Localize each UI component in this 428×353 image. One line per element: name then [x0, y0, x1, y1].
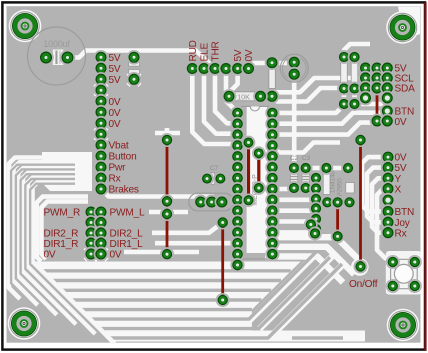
- wire SW corner diagonals: [13, 261, 115, 344]
- resistor R1 10K outline: [233, 92, 255, 101]
- resistor R4 4K7 outline: [351, 62, 358, 85]
- svg-text:C3: C3: [302, 155, 311, 162]
- svg-text:1N4148: 1N4148: [330, 170, 337, 193]
- capacitor C5 outline: [302, 166, 309, 190]
- capacitor C4 outline: [290, 166, 297, 190]
- svg-text:Rx: Rx: [109, 174, 121, 185]
- svg-text:SDA: SDA: [395, 84, 416, 95]
- svg-text:RUD: RUD: [188, 40, 199, 61]
- connector JP3 motor header pads: [85, 206, 108, 261]
- mounting hole H3: [8, 307, 41, 340]
- svg-text:0V: 0V: [110, 250, 122, 261]
- net labels motor header right: [110, 208, 145, 261]
- svg-text:BTN: BTN: [395, 107, 415, 118]
- wire IC U1 center pour: [247, 107, 268, 254]
- svg-text:Brakes: Brakes: [109, 185, 139, 196]
- mounting hole H2: [386, 11, 419, 44]
- capacitor C3 pads: [201, 173, 226, 185]
- net labels left header: [109, 53, 139, 196]
- wire red net4: [221, 223, 224, 301]
- svg-text:C2: C2: [290, 155, 299, 162]
- wire left header pour: [42, 152, 92, 191]
- svg-text:Y: Y: [395, 174, 402, 185]
- svg-text:ELE: ELE: [200, 43, 211, 62]
- svg-text:5V: 5V: [395, 163, 407, 174]
- svg-text:THR: THR: [211, 41, 222, 61]
- svg-text:Vbat: Vbat: [109, 141, 129, 152]
- connector JP5 joystick pads: [382, 151, 395, 240]
- capacitor C1 1000uf outline: [28, 27, 86, 85]
- wire red net3: [257, 153, 260, 188]
- corner pour H2: [398, 7, 420, 41]
- wire red net1: [166, 140, 169, 254]
- svg-text:Joy: Joy: [395, 218, 411, 229]
- thermal relief pad JP3b: [95, 248, 107, 260]
- svg-text:DIR1_L: DIR1_L: [110, 239, 144, 250]
- net labels RC inputs vertical: [188, 40, 255, 61]
- resistor R2 outline: [269, 68, 276, 89]
- svg-text:X: X: [395, 184, 402, 195]
- resistor R3 R4 pads: [338, 51, 361, 110]
- connector JP1 power header pads: [95, 51, 108, 196]
- wire NE corner bands: [250, 237, 365, 338]
- wire bottom trace bundle area: [30, 258, 365, 342]
- IC U1 ATmega outline: [242, 106, 269, 259]
- svg-text:PWM_R: PWM_R: [44, 208, 81, 219]
- svg-text:DIR1_R: DIR1_R: [44, 239, 79, 250]
- regulator IC2 outline: [346, 183, 355, 194]
- via pads red net3: [253, 147, 265, 194]
- svg-text:C7: C7: [210, 165, 219, 172]
- thermal relief pad JP3a: [85, 248, 97, 260]
- capacitor C2 pads: [128, 51, 141, 86]
- svg-text:0V: 0V: [109, 97, 121, 108]
- svg-text:5V: 5V: [109, 64, 121, 75]
- svg-text:0V: 0V: [395, 117, 407, 128]
- thermal relief pad JP1a: [95, 84, 107, 96]
- wire red net5: [336, 202, 339, 236]
- wire red net6 On/Off: [359, 140, 362, 267]
- wire red net2: [247, 143, 250, 201]
- net labels right bottom: [395, 207, 415, 239]
- svg-text:1000uf: 1000uf: [43, 39, 70, 49]
- connector SV1 outline: [189, 193, 234, 211]
- thermal relief pad C2: [128, 73, 140, 85]
- IC U1 pads: [231, 107, 279, 272]
- svg-text:5V: 5V: [109, 53, 121, 64]
- capacitor C2 symbol: [129, 62, 140, 74]
- svg-text:0V: 0V: [395, 153, 407, 164]
- middle right component pads: [288, 162, 356, 243]
- svg-text:On/Off: On/Off: [349, 279, 378, 290]
- crystal Q1 pads: [288, 56, 301, 81]
- net labels right middle: [395, 153, 407, 196]
- svg-text:0V: 0V: [44, 250, 56, 261]
- resistor R3 4K7 outline: [341, 62, 348, 85]
- connector SV1 pads: [194, 196, 228, 209]
- svg-text:0V: 0V: [244, 49, 255, 61]
- net labels right top: [395, 64, 416, 128]
- via pads red net4: [217, 216, 229, 306]
- resistor R1 pads: [223, 90, 268, 103]
- via clearance On/Off: [351, 258, 369, 276]
- svg-text:PWM_L: PWM_L: [110, 208, 145, 219]
- svg-text:5V: 5V: [109, 75, 121, 86]
- svg-text:Rx: Rx: [395, 228, 407, 239]
- net labels motor header left: [44, 208, 81, 261]
- crystal Q1 outline: [280, 54, 308, 82]
- svg-text:5V: 5V: [233, 49, 244, 61]
- diode D1 outline: [323, 172, 330, 195]
- capacitor C3 symbol: [211, 173, 220, 185]
- connector JP2 RC input pads: [186, 62, 255, 75]
- via pads red net6: [354, 134, 366, 273]
- svg-text:Button: Button: [109, 152, 137, 163]
- thermal relief pad JP1b: [95, 128, 107, 140]
- via pads red net1: [161, 134, 173, 261]
- mounting hole H4: [387, 309, 420, 342]
- svg-text:0V: 0V: [109, 119, 121, 130]
- mounting hole H1: [9, 10, 42, 43]
- via pads red net2: [243, 137, 255, 207]
- wire red net7 SCL: [376, 68, 379, 121]
- svg-text:10K: 10K: [237, 92, 250, 101]
- svg-text:Pwr: Pwr: [109, 163, 127, 174]
- svg-text:BTN: BTN: [395, 207, 415, 218]
- button S1 pads: [387, 256, 421, 292]
- connector JP4 I2C pads: [359, 62, 394, 128]
- resistor R2 pads: [266, 56, 279, 103]
- svg-text:0V: 0V: [109, 108, 121, 119]
- button S1 On/Off outline: [386, 251, 422, 295]
- capacitor C1 pads: [39, 51, 75, 65]
